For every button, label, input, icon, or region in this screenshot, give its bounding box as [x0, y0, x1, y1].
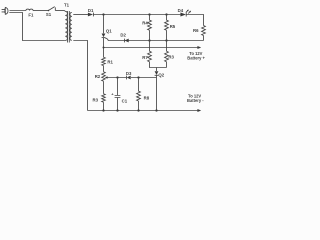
main vertical rail to Q1 anode [103, 15, 105, 34]
node rail at main chain [102, 13, 104, 15]
transformer T1 primary winding [64, 11, 67, 41]
diode D1 [88, 13, 93, 17]
wire rail to R5 [166, 15, 168, 21]
node bottom rail at Q2 [155, 109, 157, 111]
capacitor C1 [117, 78, 119, 96]
svg-text:R2: R2 [95, 74, 101, 79]
node bottom rail at R8 [137, 109, 139, 111]
svg-text:R1: R1 [107, 59, 113, 64]
resistor R1 [102, 57, 106, 65]
node bottom rail at C1 [116, 109, 118, 111]
resistor R5 [165, 20, 169, 30]
wire R3 mid bottom to link [166, 62, 168, 68]
fuse F1 [26, 9, 33, 10]
SCR Q1 [102, 34, 106, 38]
svg-text:D2: D2 [120, 33, 126, 38]
AC plug [2, 7, 8, 14]
node gate line at R5 chain [165, 39, 167, 41]
svg-text:Battery -: Battery - [187, 98, 204, 103]
potentiometer R2 [102, 72, 106, 81]
R2 wiper arrow [105, 76, 108, 78]
wire rail to R4 [149, 15, 151, 21]
resistor R6 [202, 26, 206, 36]
svg-text:T1: T1 [64, 2, 70, 7]
wire R5 to gate line and below [166, 30, 168, 51]
wiper line to Q2 gate [107, 77, 156, 79]
svg-text:D4: D4 [178, 8, 184, 13]
svg-text:Q1: Q1 [106, 28, 112, 33]
LED D4 [180, 13, 186, 17]
svg-text:D1: D1 [88, 8, 94, 13]
wire R4 to gate line and below [149, 30, 151, 51]
wire Q1 cathode down [103, 38, 105, 58]
node wiper line at R8 [137, 76, 139, 78]
wire plug bottom down and across to primary bottom [9, 13, 64, 41]
SCR Q2 [156, 68, 158, 72]
node rail at R4 [148, 13, 150, 15]
wire R7 bottom link to R3 bottom [150, 62, 167, 68]
svg-text:R4: R4 [142, 21, 148, 26]
node line2 at main chain [103, 47, 105, 49]
transformer T1 core [68, 11, 70, 43]
wire plug top to fuse [10, 10, 27, 12]
bottom rail battery minus [88, 110, 198, 112]
wire R2 to R3 [103, 81, 105, 94]
svg-text:R5: R5 [170, 24, 176, 29]
resistor R3 mid [165, 51, 169, 62]
svg-text:Battery +: Battery + [187, 56, 205, 61]
resistor R3 [102, 94, 106, 102]
node rail at R5 [165, 13, 167, 15]
wire fuse to switch [33, 10, 48, 12]
wire R8 to bottom rail [138, 101, 140, 111]
diode D3 [126, 76, 128, 80]
node wiper line at C1 [116, 76, 118, 78]
resistor R7 [148, 51, 152, 62]
arrowhead battery plus [197, 46, 201, 49]
wire R6 to gate line corner [203, 36, 205, 41]
node bottom rail at main chain [102, 109, 104, 111]
svg-text:C1: C1 [122, 98, 128, 103]
diode D2 [124, 39, 126, 43]
svg-text:Q2: Q2 [158, 73, 164, 78]
svg-text:D3: D3 [126, 71, 132, 76]
Q1 gate line across [105, 38, 204, 41]
svg-text:R8: R8 [144, 96, 150, 101]
top rail D1 to LED [93, 14, 180, 16]
arrowhead battery minus [197, 109, 201, 112]
svg-text:R6: R6 [193, 28, 199, 33]
svg-text:S1: S1 [46, 12, 52, 17]
wire LED to right corner down to R6 [186, 15, 203, 26]
svg-text:F1: F1 [28, 13, 34, 18]
resistor R4 [148, 20, 152, 30]
switch S1 [48, 10, 50, 12]
svg-text:R7: R7 [142, 55, 148, 60]
resistor R8 [137, 91, 141, 101]
svg-text:R3: R3 [93, 98, 99, 103]
wire R1 to R2 [103, 66, 105, 72]
wire R3 to bottom rail [103, 102, 105, 110]
wire wiper line to R8 [138, 78, 140, 92]
svg-text:R3: R3 [168, 54, 174, 59]
node gate line at R4 chain [148, 39, 150, 41]
wire switch to transformer [55, 10, 64, 12]
battery plus line [104, 47, 198, 49]
wire secondary top to D1 [73, 14, 88, 16]
transformer T1 secondary winding [70, 12, 72, 40]
wire secondary bottom to left vertical down [73, 41, 87, 111]
